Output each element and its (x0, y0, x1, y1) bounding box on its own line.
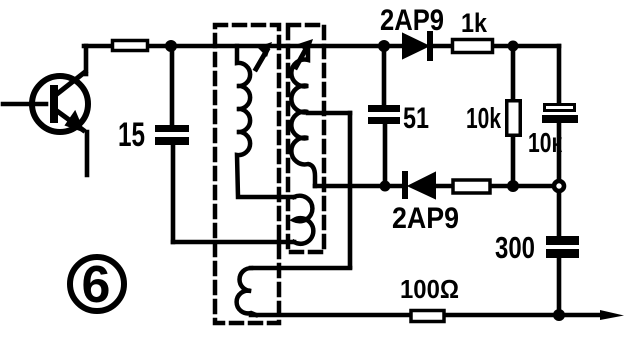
svg-text:2АР9: 2АР9 (392, 202, 459, 235)
svg-text:1k: 1k (461, 8, 488, 38)
svg-text:300: 300 (495, 230, 535, 265)
svg-text:2АР9: 2АР9 (380, 4, 444, 37)
svg-text:51: 51 (403, 102, 429, 135)
svg-text:6: 6 (82, 256, 111, 314)
svg-text:100Ω: 100Ω (400, 274, 459, 304)
svg-text:15: 15 (118, 116, 145, 154)
svg-text:10к: 10к (528, 127, 563, 158)
svg-text:10k: 10k (466, 103, 502, 135)
